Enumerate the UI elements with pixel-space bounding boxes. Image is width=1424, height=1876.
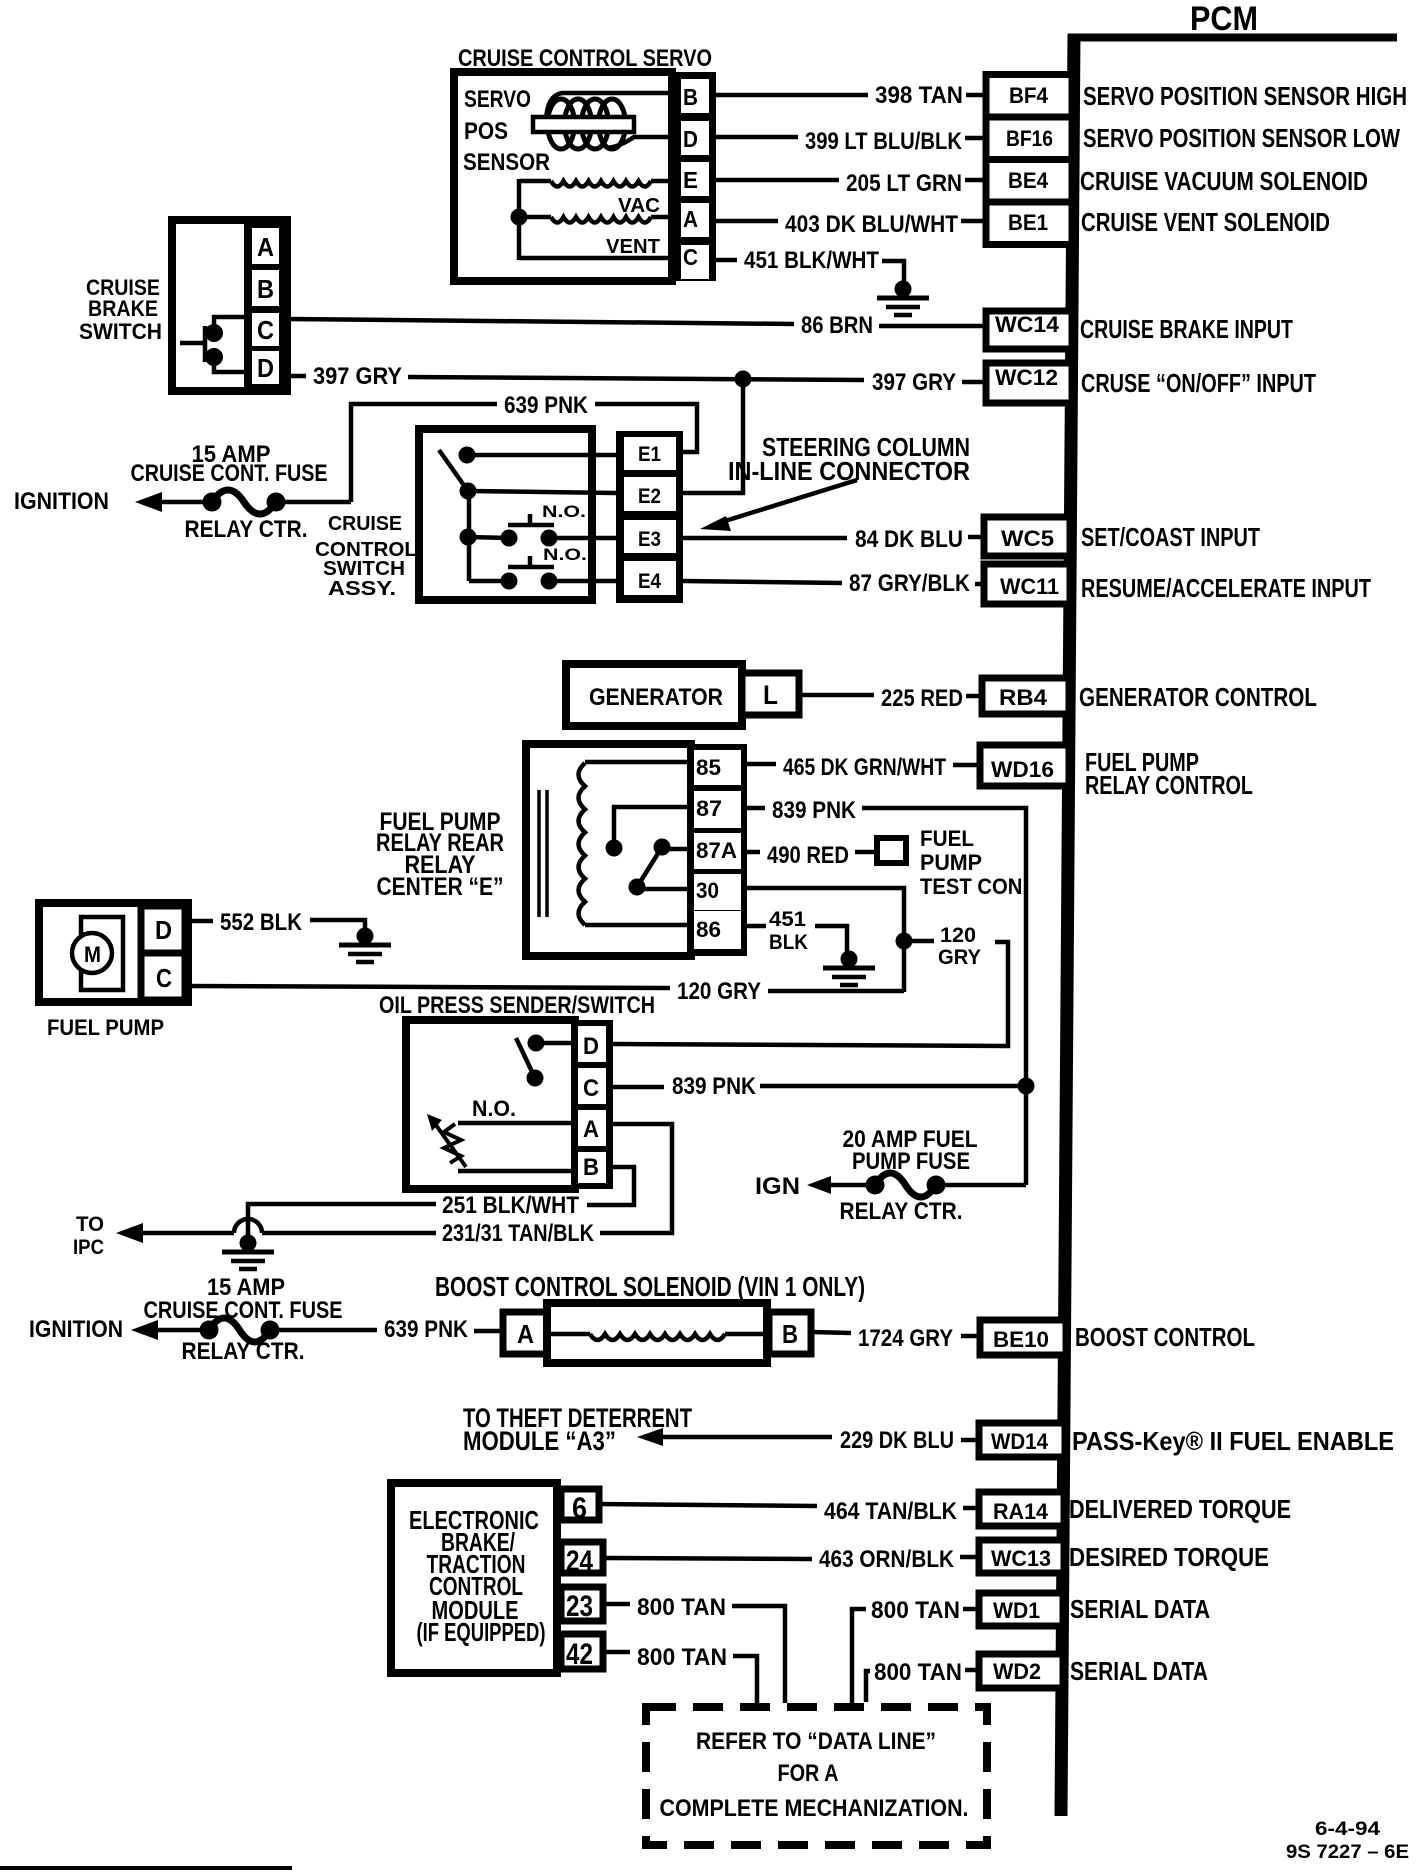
terminal RA14	[979, 1492, 1064, 1526]
VAC label	[618, 195, 660, 217]
svg-text:RELAY CONTROL: RELAY CONTROL	[1085, 770, 1253, 800]
svg-text:CRUSE “ON/OFF” INPUT: CRUSE “ON/OFF” INPUT	[1081, 368, 1316, 398]
brake switch pin D	[257, 353, 274, 383]
svg-text:E1: E1	[638, 443, 661, 466]
ignition feed arrow (bottom)	[131, 1320, 209, 1340]
revision date 6-4-94	[1315, 1819, 1381, 1840]
PCM pin function label: DELIVERED TORQUE	[1069, 1494, 1291, 1524]
wire 231/31 TAN/BLK (oil press A to IPC)	[116, 1124, 672, 1247]
wire 451 BLK (relay 86 to ground)	[747, 908, 847, 955]
svg-text:N.O.: N.O.	[542, 502, 586, 521]
wire 639 PNK (fuse to boost solenoid A)	[270, 1316, 503, 1343]
svg-text:N.O.: N.O.	[543, 545, 587, 564]
relay pin 30	[696, 878, 719, 903]
svg-text:C: C	[156, 963, 172, 993]
PCM pin function label: SERIAL DATA	[1070, 1656, 1208, 1686]
120 GRY label (right)	[938, 924, 981, 969]
steering column in-line connector label	[728, 432, 970, 486]
svg-text:SERVO POSITION SENSOR LOW: SERVO POSITION SENSOR LOW	[1083, 123, 1400, 153]
fuel pump label	[47, 1015, 164, 1040]
oil press pin D	[583, 1033, 599, 1060]
servo vacuum solenoid coil	[519, 181, 672, 187]
PCM pin function label: CRUISE VACUUM SOLENOID	[1080, 166, 1368, 196]
PCM pin function label: RELAY CONTROL	[1085, 770, 1253, 800]
wire E2 to 397 GRY junction	[683, 379, 743, 493]
svg-text:229 DK BLU: 229 DK BLU	[840, 1427, 954, 1454]
svg-text:PUMP FUSE: PUMP FUSE	[852, 1148, 970, 1175]
svg-text:SET/COAST INPUT: SET/COAST INPUT	[1081, 522, 1260, 552]
svg-text:TO: TO	[76, 1213, 104, 1236]
PCM pin function label: CRUISE VENT SOLENOID	[1081, 207, 1330, 237]
svg-text:BE10: BE10	[993, 1327, 1049, 1352]
svg-text:397 GRY: 397 GRY	[872, 369, 956, 396]
terminal BE10	[980, 1320, 1066, 1355]
TO IPC label	[73, 1213, 104, 1259]
terminal WD1	[979, 1593, 1063, 1626]
servo terminal strip B/D/E/A/C	[670, 72, 716, 281]
cruise brake switch label	[79, 275, 162, 344]
servo pos sensor label	[463, 86, 550, 176]
svg-text:BOOST CONTROL: BOOST CONTROL	[1075, 1322, 1255, 1352]
relay pin 87A	[696, 838, 737, 863]
svg-text:D: D	[155, 915, 172, 945]
wire 398 TAN (servo B to BF4)	[716, 82, 986, 109]
svg-text:BE1: BE1	[1008, 210, 1048, 235]
terminal RB4	[982, 678, 1069, 714]
wire fuse to 639 PNK riser	[276, 500, 351, 505]
svg-text:84 DK BLU: 84 DK BLU	[855, 526, 963, 553]
svg-text:E: E	[683, 167, 698, 193]
data line note text	[660, 1728, 969, 1822]
servo pin B	[683, 84, 698, 110]
svg-text:CENTER “E”: CENTER “E”	[377, 873, 504, 901]
servo pin D	[683, 126, 698, 152]
svg-text:SENSOR: SENSOR	[463, 149, 550, 176]
brake switch contacts	[180, 317, 252, 372]
wire 399 LT BLU/BLK (servo D to BF16)	[716, 128, 986, 155]
cruise control servo title	[458, 45, 712, 72]
svg-text:465 DK GRN/WHT: 465 DK GRN/WHT	[783, 754, 946, 781]
EBTCM terminal 23	[561, 1587, 603, 1623]
svg-text:WC11: WC11	[1000, 574, 1059, 599]
fuse symbol (bottom 15A)	[200, 1318, 280, 1342]
fuel pump motor symbol	[72, 917, 123, 990]
boost solenoid body and coil	[547, 1303, 769, 1363]
svg-text:SWITCH: SWITCH	[323, 558, 405, 580]
IGN label	[755, 1173, 800, 1200]
fuel pump terminal D	[141, 906, 185, 953]
svg-text:490 RED: 490 RED	[767, 842, 849, 869]
svg-text:205 LT GRN: 205 LT GRN	[846, 170, 962, 197]
terminal WC11	[984, 564, 1070, 604]
svg-text:BOOST CONTROL SOLENOID (VIN 1: BOOST CONTROL SOLENOID (VIN 1 ONLY)	[435, 1271, 865, 1302]
ignition feed arrow (top)	[135, 492, 212, 512]
generator terminal L	[742, 673, 799, 715]
junction 839 PNK	[1018, 1078, 1035, 1095]
boost control solenoid title	[435, 1271, 865, 1302]
PCM pin function label: SERVO POSITION SENSOR HIGH	[1083, 81, 1407, 111]
theft deterrent arrow	[637, 1428, 832, 1446]
svg-text:B: B	[683, 84, 698, 110]
svg-text:PUMP: PUMP	[920, 850, 982, 875]
servo bus junction	[511, 209, 528, 226]
generator box	[566, 664, 742, 726]
PCM pin function label: GENERATOR CONTROL	[1079, 682, 1317, 712]
connector pin E4	[638, 570, 661, 593]
svg-text:DESIRED TORQUE: DESIRED TORQUE	[1069, 1542, 1269, 1572]
relay coil	[579, 762, 695, 925]
terminal WD14	[979, 1423, 1065, 1457]
svg-text:PCM: PCM	[1190, 0, 1258, 38]
svg-text:D: D	[683, 126, 698, 152]
svg-text:800 TAN: 800 TAN	[637, 1644, 727, 1671]
svg-text:RB4: RB4	[999, 685, 1048, 710]
oil press sender box	[406, 1020, 575, 1189]
PCM pin function label: CRUSE "ON/OFF" INPUT	[1081, 368, 1316, 398]
wire 839 PNK (relay 87)	[747, 797, 1026, 1185]
fuel pump box	[39, 903, 188, 1002]
wire 465 DK GRN/WHT (relay 85 to WD16)	[747, 754, 980, 781]
svg-text:MODULE “A3”: MODULE “A3”	[463, 1426, 616, 1456]
wire 800 TAN (WD1 to data line)	[852, 1597, 979, 1708]
oil press sender/switch title	[379, 992, 655, 1019]
cruise control switch assy label	[315, 513, 417, 600]
svg-text:87: 87	[696, 796, 722, 821]
brake switch pin B	[257, 274, 274, 304]
svg-text:ASSY.: ASSY.	[328, 578, 396, 600]
svg-text:REFER TO “DATA LINE”: REFER TO “DATA LINE”	[696, 1728, 936, 1755]
svg-text:BRAKE: BRAKE	[88, 296, 158, 321]
svg-text:CRUISE CONT. FUSE: CRUISE CONT. FUSE	[131, 460, 328, 487]
fuel pump relay box	[526, 744, 691, 956]
svg-text:CRUISE BRAKE INPUT: CRUISE BRAKE INPUT	[1080, 314, 1293, 344]
svg-text:CRUISE VENT SOLENOID: CRUISE VENT SOLENOID	[1081, 207, 1330, 237]
servo pin E	[683, 167, 698, 193]
ground for 451 BLK	[823, 951, 875, 986]
resume/accel N.O. switch	[469, 556, 616, 590]
svg-text:RELAY CTR.: RELAY CTR.	[840, 1198, 963, 1225]
svg-text:24: 24	[566, 1545, 593, 1578]
terminal WC5	[984, 517, 1070, 556]
wire relay 30 to 120 GRY	[747, 888, 904, 992]
wire 229 DK BLU (to WD14)	[840, 1427, 979, 1454]
svg-text:B: B	[782, 1319, 798, 1349]
wire 120 GRY to oil press sender D	[612, 942, 1008, 1046]
wire 464 TAN/BLK (EBTCM 6 to RA14)	[599, 1498, 979, 1525]
wire 397 GRY (brake switch D to WC12)	[287, 363, 986, 396]
svg-text:A: A	[517, 1319, 534, 1349]
svg-text:87A: 87A	[696, 838, 737, 863]
wire 451 BLK/WHT (servo C to ground)	[716, 247, 904, 284]
EBTCM terminal 42	[561, 1634, 603, 1671]
svg-text:WD2: WD2	[993, 1659, 1041, 1684]
connector pin E3	[638, 528, 661, 551]
EBTCM label	[409, 1505, 546, 1647]
svg-text:B: B	[257, 274, 274, 304]
PCM pin function label: BOOST CONTROL	[1075, 1322, 1255, 1352]
fuel pump terminal C	[141, 953, 185, 1000]
IGNITION label (top)	[14, 488, 109, 515]
svg-text:85: 85	[696, 755, 721, 780]
svg-text:BF16: BF16	[1006, 126, 1053, 151]
svg-text:A: A	[257, 232, 274, 262]
svg-text:451: 451	[769, 908, 806, 931]
terminal BE1	[1008, 210, 1048, 235]
svg-text:451 BLK/WHT: 451 BLK/WHT	[744, 247, 879, 274]
PCM pin function label: DESIRED TORQUE	[1069, 1542, 1269, 1572]
20 AMP fuel pump fuse labels	[840, 1126, 978, 1225]
svg-text:VENT: VENT	[606, 236, 660, 258]
svg-text:30: 30	[696, 878, 719, 903]
svg-text:FOR A: FOR A	[778, 1760, 839, 1787]
svg-text:WC14: WC14	[995, 312, 1060, 337]
svg-text:120: 120	[940, 924, 976, 947]
svg-text:1724 GRY: 1724 GRY	[858, 1325, 953, 1352]
svg-text:GENERATOR CONTROL: GENERATOR CONTROL	[1079, 682, 1317, 712]
PCM pin function label: CRUISE BRAKE INPUT	[1080, 314, 1293, 344]
svg-text:WC13: WC13	[991, 1546, 1051, 1571]
svg-text:SERIAL DATA: SERIAL DATA	[1070, 1594, 1210, 1624]
terminal BF16	[1006, 126, 1053, 151]
to theft deterrent module label	[463, 1403, 692, 1456]
svg-text:D: D	[583, 1033, 599, 1060]
terminal WC14	[986, 311, 1072, 349]
connector pin E1	[638, 443, 661, 466]
boost solenoid terminal B	[769, 1312, 811, 1354]
wire 839 PNK (oil press C to junction)	[613, 1073, 1026, 1100]
wire 84 DK BLU (E3 to WC5)	[683, 526, 984, 553]
wire 463 ORN/BLK (EBTCM 24 to WC13)	[603, 1546, 979, 1573]
relay terminal strip 85/87/87A/30/86	[688, 744, 747, 956]
PCM module boundary line	[1061, 34, 1397, 1816]
svg-text:839 PNK: 839 PNK	[672, 1073, 757, 1100]
svg-text:C: C	[683, 244, 698, 270]
svg-text:A: A	[683, 206, 698, 232]
PCM pin function label: RESUME/ACCELERATE INPUT	[1081, 573, 1371, 603]
svg-text:463 ORN/BLK: 463 ORN/BLK	[819, 1546, 955, 1573]
svg-text:FUEL: FUEL	[920, 826, 974, 851]
svg-text:RELAY CTR.: RELAY CTR.	[185, 516, 308, 543]
svg-text:6: 6	[572, 1492, 587, 1525]
svg-text:225 RED: 225 RED	[881, 685, 963, 712]
svg-text:SERVO POSITION SENSOR HIGH: SERVO POSITION SENSOR HIGH	[1083, 81, 1407, 111]
svg-text:L: L	[763, 680, 778, 710]
svg-text:86: 86	[696, 917, 721, 942]
relay switch contacts	[606, 807, 695, 896]
svg-text:IGNITION: IGNITION	[29, 1316, 123, 1343]
svg-text:DELIVERED TORQUE: DELIVERED TORQUE	[1069, 1494, 1291, 1524]
N.O. label (oil press)	[472, 1096, 516, 1121]
PCM pin function label: SERVO POSITION SENSOR LOW	[1083, 123, 1400, 153]
svg-text:639 PNK: 639 PNK	[384, 1316, 469, 1343]
terminal WC13	[979, 1540, 1064, 1573]
relay core	[539, 790, 547, 917]
svg-text:WD16: WD16	[991, 757, 1054, 782]
wire 1724 GRY (boost B to BE10)	[811, 1325, 980, 1352]
svg-text:120 GRY: 120 GRY	[677, 978, 761, 1005]
svg-text:800 TAN: 800 TAN	[874, 1659, 962, 1686]
fuel pump relay label	[376, 808, 504, 901]
svg-text:RA14: RA14	[993, 1499, 1049, 1524]
15 AMP cruise control fuse labels (top)	[131, 441, 328, 543]
N.O. label (resume/accel)	[543, 545, 587, 564]
oil press switch contacts	[516, 1035, 578, 1087]
wire 552 BLK (fuel pump D to ground)	[185, 909, 365, 936]
svg-text:RELAY CTR.: RELAY CTR.	[182, 1338, 305, 1365]
svg-text:A: A	[583, 1116, 599, 1143]
svg-text:CRUISE CONTROL SERVO: CRUISE CONTROL SERVO	[458, 45, 712, 72]
servo vent solenoid coil	[519, 217, 672, 223]
svg-text:403 DK BLU/WHT: 403 DK BLU/WHT	[785, 211, 958, 238]
svg-text:800 TAN: 800 TAN	[871, 1597, 960, 1624]
wire 120 GRY (relay 30 to fuel pump C)	[186, 978, 904, 1005]
svg-text:C: C	[583, 1075, 599, 1102]
svg-text:D: D	[257, 353, 274, 383]
ground for 451 BLK/WHT	[877, 281, 929, 316]
svg-text:IGNITION: IGNITION	[14, 488, 109, 515]
EBTCM terminal 6	[561, 1489, 599, 1525]
relay pin 86	[696, 917, 721, 942]
svg-text:SERVO: SERVO	[464, 86, 531, 113]
VENT label	[606, 236, 660, 258]
wire fuse to 839 PNK riser	[936, 1183, 1026, 1188]
boost solenoid terminal A	[503, 1312, 548, 1354]
cruise control switch assy box	[419, 429, 592, 600]
steering column connector strip E1-E4	[616, 431, 683, 603]
wire 225 RED (generator L to RB4)	[799, 685, 982, 712]
svg-text:42: 42	[566, 1638, 593, 1671]
svg-text:RESUME/ACCELERATE INPUT: RESUME/ACCELERATE INPUT	[1081, 573, 1371, 603]
ground for 552 BLK	[339, 928, 391, 963]
svg-text:C: C	[257, 315, 274, 345]
oil press pin C	[583, 1075, 599, 1102]
fuse symbol (20A fuel pump)	[866, 1173, 946, 1197]
svg-text:SERIAL DATA: SERIAL DATA	[1070, 1656, 1208, 1686]
svg-text:CRUISE: CRUISE	[328, 513, 402, 535]
cruise brake switch box	[172, 220, 287, 391]
svg-text:IGN: IGN	[755, 1173, 800, 1200]
wire 800 TAN (WD2 to data line)	[866, 1659, 979, 1702]
servo position sensor coil	[533, 93, 672, 149]
svg-text:552 BLK: 552 BLK	[220, 909, 303, 936]
wire 800 TAN (EBTCM 23 to data line)	[603, 1594, 785, 1703]
drawing number 9S 7227-6E	[1286, 1842, 1409, 1863]
switch assy wiper arm	[439, 447, 616, 492]
oil press pin A	[583, 1116, 599, 1143]
fuse symbol (top 15A)	[203, 490, 286, 514]
svg-text:WC5: WC5	[1001, 526, 1054, 551]
svg-text:WD1: WD1	[993, 1598, 1040, 1623]
EBTCM terminal 24	[561, 1542, 603, 1578]
electronic brake/traction control module box	[391, 1483, 557, 1673]
page edge mark	[0, 1866, 292, 1870]
PCM pin function label: SERIAL DATA	[1070, 1594, 1210, 1624]
brake switch pin A	[257, 232, 274, 262]
terminal BF4	[1009, 83, 1049, 108]
cruise control servo box	[454, 72, 672, 281]
set/coast N.O. switch	[460, 514, 617, 547]
IGNITION label (bottom)	[29, 1316, 123, 1343]
servo internal bus wire	[519, 179, 672, 260]
wire 490 RED (relay 87A to test connector)	[747, 842, 877, 869]
svg-text:87 GRY/BLK: 87 GRY/BLK	[849, 570, 971, 597]
svg-text:E2: E2	[638, 485, 661, 508]
PCM pin function label: SET/COAST INPUT	[1081, 522, 1260, 552]
svg-text:23: 23	[566, 1590, 593, 1623]
svg-text:GRY: GRY	[938, 946, 981, 969]
terminal WD16	[980, 745, 1069, 786]
fuel pump test connector label	[920, 826, 1028, 899]
switch assy common bus	[460, 483, 617, 582]
fuel pump test connector	[877, 838, 906, 863]
svg-text:FUEL PUMP: FUEL PUMP	[47, 1015, 164, 1040]
svg-text:(IF EQUIPPED): (IF EQUIPPED)	[417, 1617, 546, 1647]
svg-text:N.O.: N.O.	[472, 1096, 516, 1121]
wire 86 BRN (brake switch C to WC14)	[287, 312, 986, 339]
data line note dashed box	[646, 1707, 987, 1845]
svg-text:PASS-Key® II FUEL ENABLE: PASS-Key® II FUEL ENABLE	[1072, 1426, 1394, 1456]
wire 639 PNK (fuse to cruise switch E1)	[351, 392, 697, 502]
brake switch terminal strip A/B/C/D	[244, 220, 287, 391]
connector pin E2	[638, 485, 661, 508]
svg-text:397 GRY: 397 GRY	[313, 363, 402, 390]
steering column connector arrow	[700, 480, 857, 531]
svg-text:9S 7227 – 6E: 9S 7227 – 6E	[1286, 1842, 1409, 1863]
svg-text:GENERATOR: GENERATOR	[589, 684, 723, 711]
svg-text:398 TAN: 398 TAN	[875, 82, 963, 109]
svg-text:6-4-94: 6-4-94	[1315, 1819, 1381, 1840]
oil press pin B	[583, 1154, 599, 1181]
oil press variable resistor	[427, 1114, 578, 1171]
svg-text:POS: POS	[464, 118, 508, 145]
wire 87 GRY/BLK (E4 to WC11)	[683, 570, 984, 597]
svg-text:639 PNK: 639 PNK	[504, 392, 589, 419]
servo pin C	[683, 244, 698, 270]
junction 120 GRY	[896, 933, 935, 950]
svg-text:CRUISE CONT. FUSE: CRUISE CONT. FUSE	[144, 1297, 343, 1324]
svg-text:IPC: IPC	[73, 1236, 104, 1259]
svg-text:BF4: BF4	[1009, 83, 1049, 108]
PCM connector group BF4/BF16/BE4/BE1	[986, 75, 1072, 245]
N.O. label (set/coast)	[542, 502, 586, 521]
servo pin A	[683, 206, 698, 232]
svg-text:231/31 TAN/BLK: 231/31 TAN/BLK	[442, 1220, 595, 1247]
terminal WD2	[979, 1654, 1063, 1688]
svg-text:SWITCH: SWITCH	[79, 319, 162, 344]
svg-text:BLK: BLK	[769, 931, 808, 954]
svg-text:251 BLK/WHT: 251 BLK/WHT	[442, 1192, 579, 1219]
svg-text:TEST CON.: TEST CON.	[920, 874, 1028, 899]
PCM pin function label: FUEL PUMP	[1085, 747, 1199, 777]
relay pin 87	[696, 796, 722, 821]
svg-text:CRUISE VACUUM SOLENOID: CRUISE VACUUM SOLENOID	[1080, 166, 1368, 196]
terminal WC12	[986, 363, 1072, 403]
svg-text:WD14: WD14	[991, 1429, 1049, 1454]
svg-text:E3: E3	[638, 528, 661, 551]
wire 205 LT GRN (servo E to BE4)	[716, 170, 986, 197]
svg-text:COMPLETE MECHANIZATION.: COMPLETE MECHANIZATION.	[660, 1795, 969, 1822]
relay pin 85	[696, 755, 721, 780]
wire 251 BLK/WHT (oil press B to ground)	[248, 1167, 634, 1238]
svg-text:BE4: BE4	[1008, 168, 1049, 193]
PCM pin function label: PASS-Key(R) II FUEL ENABLE	[1072, 1426, 1394, 1456]
ignition feed arrow (fuel pump fuse)	[807, 1176, 875, 1194]
ground for 251 BLK/WHT	[222, 1235, 274, 1270]
svg-text:M: M	[84, 942, 101, 967]
junction 397 GRY / steering column E2	[735, 371, 752, 388]
15 AMP cruise control fuse labels (bottom)	[144, 1274, 343, 1365]
oil press terminal strip D/C/A/B	[571, 1020, 613, 1189]
